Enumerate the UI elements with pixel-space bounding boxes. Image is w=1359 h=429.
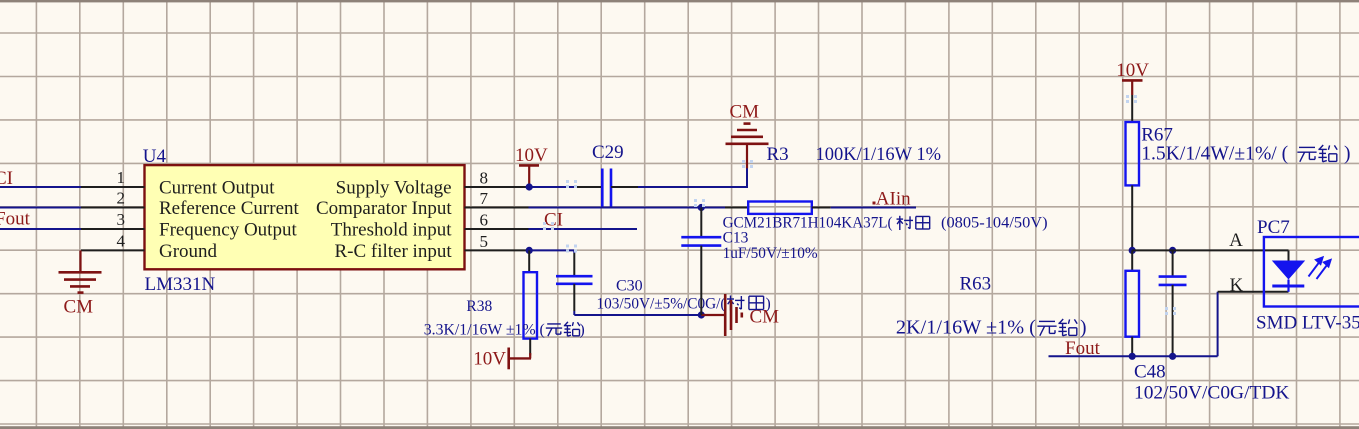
svg-text:Comparator Input: Comparator Input [316,198,452,219]
optocoupler PC7 box [1264,237,1359,307]
svg-text:7: 7 [480,189,489,208]
wire into U4 pin 2 [0,207,81,209]
U4 pin 7 [465,207,529,209]
wire R3 to AIin [831,207,916,209]
svg-text:): ) [1080,318,1087,339]
svg-text:4: 4 [117,231,126,250]
svg-text:3: 3 [117,210,126,229]
svg-text:R-C filter input: R-C filter input [334,241,452,262]
svg-text:R3: R3 [767,144,789,165]
wire pin7 row [529,207,726,209]
svg-text:2K/1/16W ±1% (: 2K/1/16W ±1% ( [896,318,1036,339]
ground CM (top) symbol [726,143,769,146]
junction pin7 / C13 [698,204,705,211]
svg-text:A: A [1229,230,1243,251]
U4 pin names [159,178,452,262]
resistor R67 [1131,95,1133,122]
svg-text:CM: CM [750,307,780,328]
U4 pin 3 [81,228,145,230]
svg-text:1: 1 [117,168,126,187]
wire Fout bottom run [1049,355,1218,357]
capacitor C48 [1172,250,1174,276]
wire pin6 CI [529,228,638,230]
svg-text:10V: 10V [515,145,548,166]
svg-text:2: 2 [117,189,126,208]
wire Fout to U4 pin 3 [0,228,81,230]
svg-text:Frequency Output: Frequency Output [159,219,297,240]
svg-text:102/50V/C0G/TDK: 102/50V/C0G/TDK [1134,383,1290,404]
junction R63 bottom [1129,353,1136,360]
U4 pin 6 [465,228,529,230]
svg-text:1.5K/1/4W/±1%/ (: 1.5K/1/4W/±1%/ ( [1141,144,1288,165]
wire C29 to CM riser [638,186,748,188]
PC7 LED [1288,250,1290,261]
net label AIin [873,202,876,205]
U4 pin 1 [81,186,145,188]
capacitor C30 [573,253,575,276]
svg-text:C48: C48 [1134,362,1166,383]
svg-text:): ) [580,322,585,339]
svg-text:6: 6 [480,211,489,230]
ground CM at U4 pin 4 [79,250,81,272]
op-amp U4 LM331N body [145,165,465,269]
svg-text:PC7: PC7 [1257,217,1290,238]
svg-text:Supply Voltage: Supply Voltage [336,178,452,199]
svg-text:C30: C30 [616,278,643,295]
svg-text:CI: CI [0,168,13,189]
svg-text:U4: U4 [143,146,167,167]
svg-text:10V: 10V [473,349,506,370]
svg-text:3.3K/1/16W ±1% (: 3.3K/1/16W ±1% ( [424,322,545,339]
svg-text:(0805-104/50V): (0805-104/50V) [941,215,1048,232]
ground CM (mid, rotated) [701,314,725,316]
junction C48 bottom [1169,353,1176,360]
svg-text:10V: 10V [1116,60,1149,81]
U4 pin 8 [465,186,529,188]
U4 pin 5 [465,249,529,251]
U4 pin 4 [81,249,145,251]
svg-text:R67: R67 [1141,125,1173,146]
capacitor C13 [700,208,702,238]
wire A row to optocoupler [1132,249,1288,251]
svg-text:Ground: Ground [159,241,218,262]
svg-text:Current Output: Current Output [159,178,275,199]
svg-text:5: 5 [480,232,489,251]
wire CI to U4 pin 1 [0,186,81,188]
svg-text:R38: R38 [466,298,492,315]
svg-text:103/50V/±5%/C0G/(: 103/50V/±5%/C0G/( [597,296,726,313]
svg-text:Reference Current: Reference Current [159,198,300,219]
svg-text:CM: CM [730,102,760,123]
svg-text:AIin: AIin [876,188,911,209]
U4 pin 2 [81,207,145,209]
wire up to K row [1217,292,1219,357]
svg-text:K: K [1230,275,1244,296]
svg-text:1uF/50V/±10%: 1uF/50V/±10% [723,245,818,262]
svg-text:SMD LTV-35: SMD LTV-35 [1256,313,1359,334]
svg-text:8: 8 [480,169,489,188]
PC7 LED light arrows [1309,257,1331,279]
junction R67/A row [1129,247,1136,254]
wire pin8 to C29 [529,186,577,188]
junction pin 5 [526,247,533,254]
junction C13/C30/ground [698,311,705,318]
svg-text:Threshold input: Threshold input [331,219,453,240]
resistor R38 [528,250,530,272]
wire pin5 to C30 branch [529,249,574,251]
svg-text:C29: C29 [592,142,624,163]
svg-text:): ) [1344,144,1351,165]
svg-text:CM: CM [64,297,94,318]
svg-text:LM331N: LM331N [145,274,216,295]
power 10V at R38 bottom [529,353,531,358]
junction at pin 8 / 10V [526,183,533,190]
grip marks [566,180,569,183]
ground CM (top) riser [746,145,748,168]
junction C48 top [1169,247,1176,254]
svg-text:R63: R63 [960,274,992,295]
svg-text:100K/1/16W 1%: 100K/1/16W 1% [816,144,942,165]
wire C30 bottom run [573,311,575,315]
resistor R63 body [1131,250,1133,270]
wire K row to optocoupler [1218,291,1289,293]
svg-text:Fout: Fout [0,209,31,230]
